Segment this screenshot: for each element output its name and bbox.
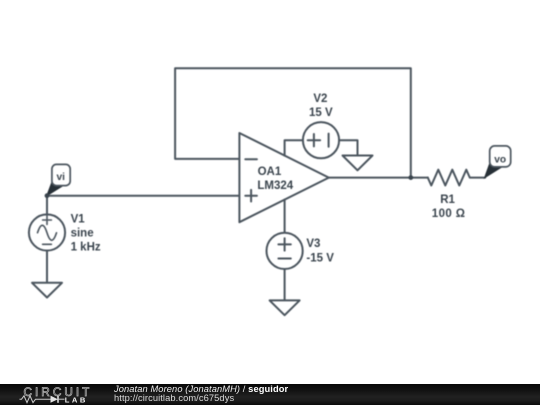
wire output — [329, 177, 428, 179]
svg-text:100 Ω: 100 Ω — [432, 208, 466, 220]
resistor R1 — [428, 170, 485, 186]
wire V3 to ground — [284, 269, 286, 300]
svg-text:LM324: LM324 — [257, 180, 293, 192]
svg-text:vi: vi — [56, 172, 65, 183]
wire V2 to ground — [339, 140, 357, 155]
op-amp OA1 — [239, 133, 328, 222]
svg-text:V2: V2 — [313, 93, 327, 105]
svg-text:OA1: OA1 — [258, 166, 282, 178]
svg-text:-15 V: -15 V — [306, 253, 334, 265]
ground for V2 — [343, 156, 373, 171]
junction output node — [408, 175, 413, 180]
node vi dot — [45, 193, 50, 198]
svg-text:vo: vo — [494, 154, 506, 165]
node flag vi — [46, 182, 64, 198]
svg-text:LAB: LAB — [65, 395, 88, 404]
wire V1 bottom — [46, 251, 48, 283]
footer bar — [0, 384, 540, 405]
voltage source V2 — [303, 122, 339, 158]
voltage source V1 — [29, 214, 65, 250]
wire V+ pin — [285, 140, 303, 155]
ground for V3 — [270, 300, 300, 315]
wire V- pin — [284, 200, 286, 233]
node flag vo — [484, 163, 503, 179]
svg-text:sine: sine — [71, 227, 94, 239]
ground for V1 — [32, 283, 62, 298]
footer text — [114, 385, 288, 403]
wire V1 top — [46, 196, 48, 215]
wire feedback loop — [175, 68, 411, 177]
CircuitLab logo — [0, 384, 110, 405]
svg-text:V1: V1 — [71, 213, 86, 225]
svg-text:15 V: 15 V — [309, 107, 333, 119]
svg-text:V3: V3 — [306, 238, 320, 250]
svg-text:1 kHz: 1 kHz — [71, 241, 101, 253]
wire vi to + input — [47, 195, 239, 197]
voltage source V3 — [267, 233, 303, 269]
svg-text:R1: R1 — [440, 194, 455, 206]
